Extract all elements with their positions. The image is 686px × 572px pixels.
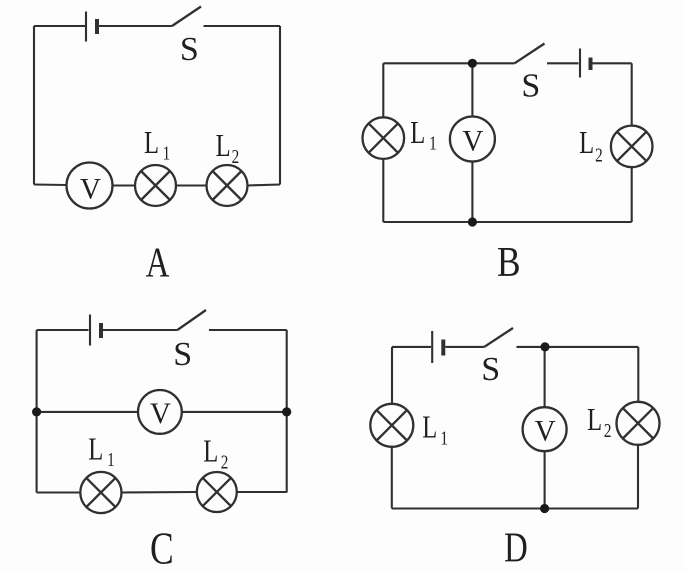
- wire D left vertical upper: [391, 347, 393, 404]
- wire C top-mid: [103, 329, 177, 331]
- lamp L1 (B): [363, 117, 405, 159]
- svg-text:L: L: [144, 126, 159, 161]
- lamp L2 (C): [197, 472, 237, 512]
- wire B top-left: [383, 62, 514, 64]
- node dot C middle-left: [32, 407, 41, 416]
- svg-text:V: V: [80, 173, 101, 205]
- svg-text:S: S: [481, 351, 500, 388]
- node dot D bottom: [540, 504, 549, 513]
- wire D middle branch upper: [544, 347, 546, 407]
- svg-text:1: 1: [429, 132, 437, 154]
- svg-text:2: 2: [221, 451, 229, 473]
- battery D long plate: [431, 331, 433, 363]
- wire C middle rail left: [37, 411, 138, 413]
- lamp L1 (C): [80, 472, 121, 513]
- wire A L1-to-L2: [176, 184, 207, 186]
- wire B switch-to-battery: [547, 62, 579, 64]
- label L2 (C): [203, 435, 218, 470]
- lamp L2 (B): [611, 126, 653, 168]
- wire A right vertical: [279, 26, 281, 185]
- wire A left vertical: [33, 26, 35, 185]
- voltmeter V (A) circle: [67, 163, 113, 209]
- label C: [150, 523, 174, 572]
- wire D bottom: [392, 507, 638, 509]
- label V (D): [535, 415, 556, 447]
- wire C L1-to-L2: [122, 491, 197, 494]
- svg-text:L: L: [216, 129, 231, 164]
- label V (C): [150, 398, 171, 430]
- svg-text:A: A: [146, 240, 170, 287]
- svg-text:C: C: [150, 523, 174, 572]
- wire B bottom: [383, 221, 631, 223]
- wire C bottom-right: [237, 491, 287, 493]
- svg-text:S: S: [521, 67, 540, 104]
- label L1 (B): [410, 116, 425, 151]
- wire D middle branch lower: [544, 451, 546, 508]
- label V (B): [462, 125, 483, 157]
- svg-text:D: D: [504, 525, 528, 572]
- wire D right vertical upper: [637, 347, 639, 402]
- svg-text:1: 1: [163, 142, 171, 164]
- wire C bottom-left: [37, 491, 81, 493]
- node dot D top: [540, 342, 549, 351]
- label A: [146, 240, 170, 287]
- wire B right vertical upper: [631, 63, 633, 126]
- wire A top-left: [34, 25, 85, 27]
- svg-text:L: L: [203, 435, 218, 470]
- node dot B top: [468, 59, 477, 68]
- wire C top-left: [37, 329, 89, 331]
- switch S blade (D): [484, 328, 513, 347]
- label L1 (A): [144, 126, 159, 161]
- battery D short plate: [441, 340, 445, 356]
- svg-text:S: S: [173, 336, 192, 373]
- wire C top-right: [209, 329, 287, 331]
- label L2 (D): [587, 403, 602, 438]
- wire C left vertical: [36, 330, 38, 493]
- wire D left vertical lower: [391, 447, 393, 509]
- wire A bottom-left: [34, 183, 66, 186]
- wire B middle branch upper: [471, 63, 473, 116]
- wire B left vertical upper: [382, 63, 384, 117]
- svg-text:B: B: [497, 239, 521, 286]
- lamp L2 (D): [617, 402, 660, 445]
- switch S blade (C): [177, 310, 206, 330]
- wire A V-to-L1: [113, 184, 136, 186]
- svg-text:L: L: [410, 116, 425, 151]
- label S (C): [173, 336, 192, 373]
- label L1 (D): [422, 411, 437, 446]
- wire D top-right: [517, 346, 639, 348]
- lamp L2 (A): [207, 165, 248, 206]
- svg-text:V: V: [462, 125, 483, 157]
- lamp L1 (D): [370, 404, 413, 447]
- voltmeter V (D) circle: [523, 407, 567, 451]
- wire D battery-to-switch: [446, 346, 485, 348]
- wire C middle rail right: [182, 411, 287, 413]
- label L2 (B): [579, 126, 594, 161]
- node dot C middle-right: [282, 407, 291, 416]
- wire A top-right: [204, 25, 281, 27]
- label S (D): [481, 351, 500, 388]
- svg-text:2: 2: [232, 145, 240, 167]
- wire D top-left: [392, 346, 431, 348]
- label B: [497, 239, 521, 286]
- wire B right vertical lower: [631, 167, 633, 222]
- wire A top-mid: [99, 25, 172, 27]
- svg-text:L: L: [579, 126, 594, 161]
- label V (A): [80, 173, 101, 205]
- svg-text:V: V: [535, 415, 556, 447]
- label L1 (C): [88, 433, 103, 468]
- wire A bottom-right: [248, 185, 281, 186]
- label D: [504, 525, 528, 572]
- battery B long plate: [579, 49, 581, 78]
- battery A long plate: [85, 12, 87, 42]
- switch S blade (B): [515, 44, 545, 64]
- svg-text:V: V: [150, 398, 171, 430]
- svg-text:1: 1: [107, 448, 115, 470]
- wire D right vertical lower: [637, 445, 639, 509]
- battery C long plate: [89, 315, 91, 346]
- switch S blade (A): [172, 7, 201, 27]
- svg-text:2: 2: [595, 143, 603, 165]
- wire B left vertical lower: [382, 159, 384, 222]
- voltmeter V (B) circle: [450, 117, 495, 162]
- node dot B bottom: [468, 217, 477, 226]
- lamp L1 (A): [135, 165, 176, 206]
- svg-text:L: L: [88, 433, 103, 468]
- wire B top-right: [593, 62, 632, 64]
- svg-text:S: S: [180, 31, 199, 68]
- wire B middle branch lower: [471, 162, 473, 223]
- wire C right vertical: [286, 330, 288, 493]
- voltmeter V (C) circle: [138, 390, 182, 434]
- svg-text:L: L: [587, 403, 602, 438]
- battery A short plate: [95, 19, 99, 34]
- label S (A): [180, 31, 199, 68]
- battery C short plate: [99, 323, 103, 338]
- svg-text:L: L: [422, 411, 437, 446]
- label S (B): [521, 67, 540, 104]
- battery B short plate: [589, 58, 593, 71]
- svg-text:1: 1: [440, 427, 448, 449]
- svg-text:2: 2: [604, 419, 612, 441]
- label L2 (A): [216, 129, 231, 164]
